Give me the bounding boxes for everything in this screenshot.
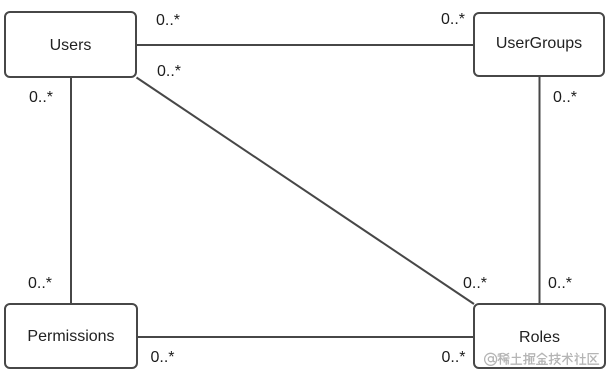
wire Users-Roles (diagonal association) xyxy=(137,78,475,305)
watermark glyph 术 xyxy=(562,353,572,364)
entity UserGroups xyxy=(473,12,605,77)
wire UserGroups-Roles (vertical association) xyxy=(539,76,541,304)
watermark @稀土掘金技术社区 (drawn as SVG strokes) xyxy=(484,351,604,368)
wire Permissions-Roles (horizontal association) xyxy=(137,336,474,338)
watermark glyph 社 xyxy=(575,353,586,364)
watermark glyph @ xyxy=(485,353,497,365)
multiplicity 0..* (Permissions end of Users-Permissions) xyxy=(28,276,52,292)
multiplicity 0..* (UserGroups end of UserGroups-Roles) xyxy=(553,90,577,106)
watermark glyph 金 xyxy=(537,353,548,364)
watermark glyph 掘 xyxy=(524,353,535,364)
multiplicity 0..* (Users end of Users-Roles diagonal) xyxy=(157,64,181,80)
multiplicity 0..* (Roles end of Permissions-Roles) xyxy=(442,350,466,366)
entity Permissions xyxy=(4,303,138,369)
multiplicity 0..* (Permissions end of Permissions-Roles) xyxy=(151,350,175,366)
entity Roles xyxy=(473,303,606,369)
watermark glyph 稀 xyxy=(498,353,509,364)
watermark glyph 土 xyxy=(511,353,522,364)
multiplicity 0..* (Roles end of UserGroups-Roles) xyxy=(548,276,572,292)
multiplicity 0..* (Users end of Users-Permissions) xyxy=(29,90,53,106)
watermark glyph 技 xyxy=(549,353,560,364)
wire Users-UserGroups (horizontal association) xyxy=(136,44,474,46)
entity Users xyxy=(4,11,137,78)
wire Users-Permissions (vertical association) xyxy=(70,77,72,304)
multiplicity 0..* (Users end of Users-UserGroups) xyxy=(156,13,180,29)
multiplicity 0..* (UserGroups end of Users-UserGroups) xyxy=(441,12,465,28)
watermark glyph 区 xyxy=(588,354,598,365)
multiplicity 0..* (Roles end of Users-Roles diagonal) xyxy=(463,276,487,292)
